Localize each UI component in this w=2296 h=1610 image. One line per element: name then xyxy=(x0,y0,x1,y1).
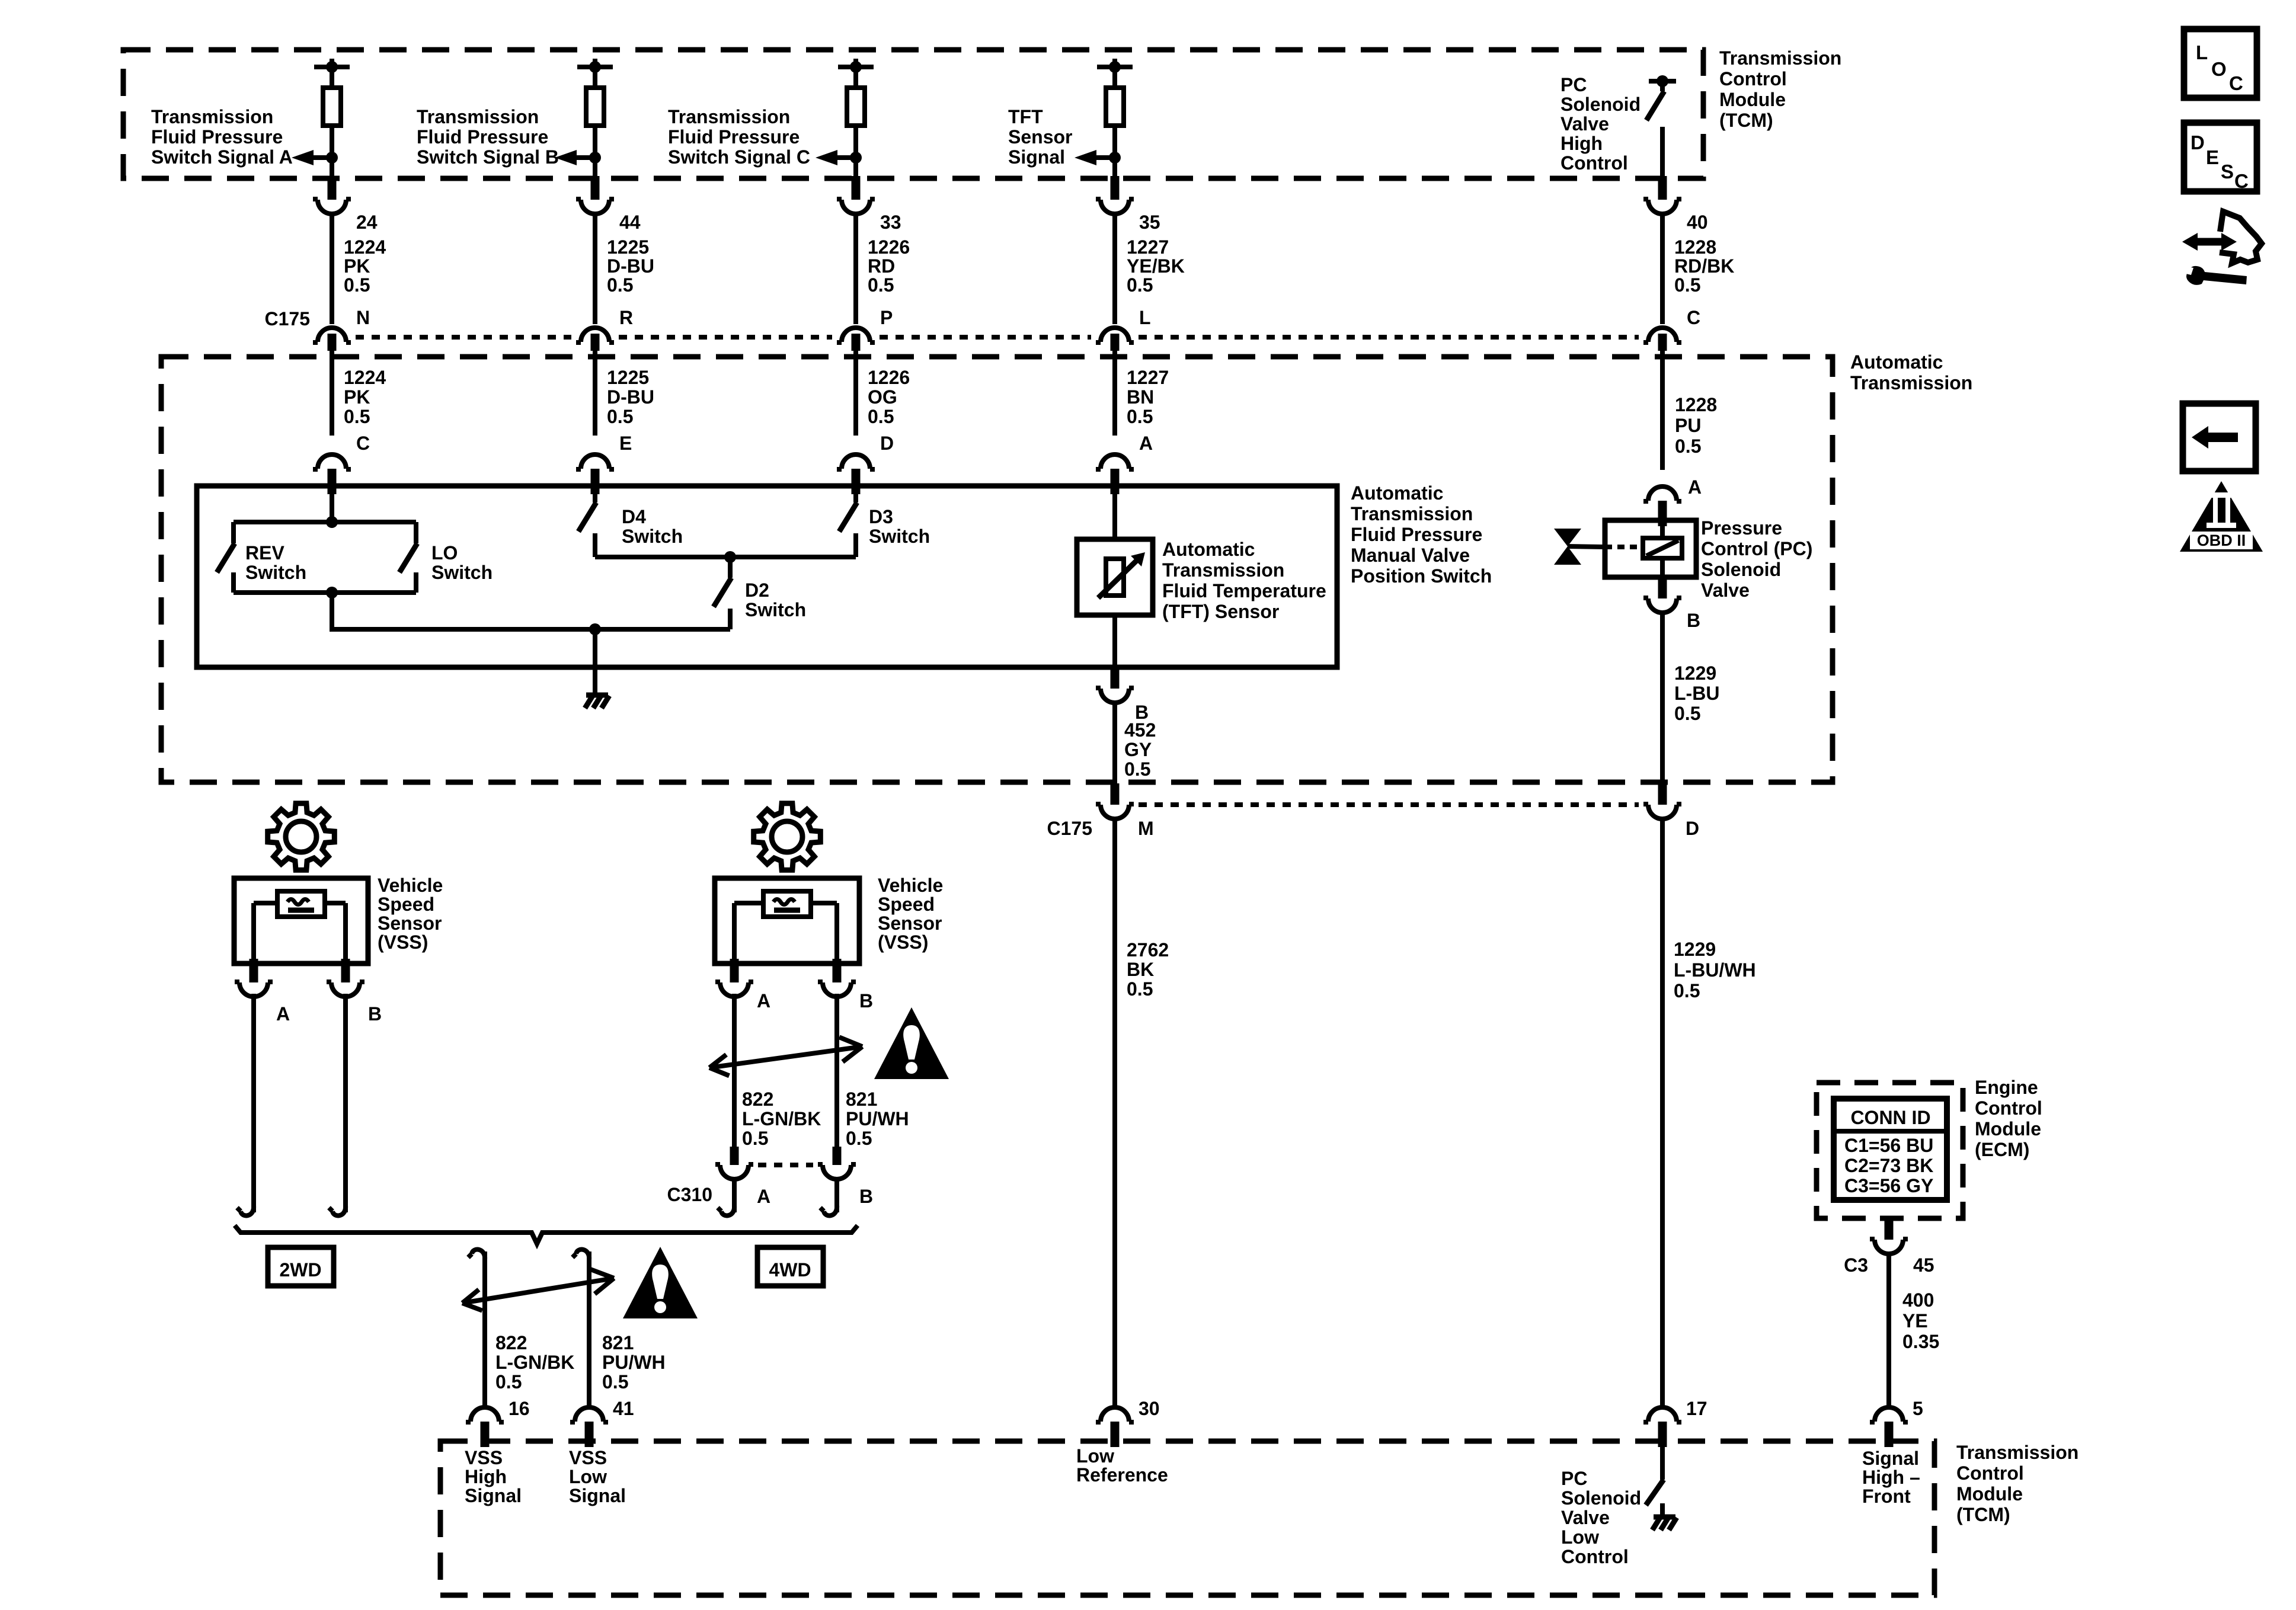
signal arrow: Transmission Fluid Pressure Switch Signal A xyxy=(292,150,338,165)
svg-text:1226: 1226 xyxy=(868,236,910,258)
wire 821 PU/WH 0.5 (brace to TCM pin 41) xyxy=(573,1250,589,1410)
wire 822 L-GN/BK 0.5 (VSS 4WD A to C310) xyxy=(732,994,737,1151)
svg-text:Transmission: Transmission xyxy=(417,106,539,127)
svg-text:D2: D2 xyxy=(745,580,769,601)
switch D4 xyxy=(578,488,596,557)
svg-text:PC: PC xyxy=(1561,1468,1587,1489)
svg-text:Engine: Engine xyxy=(1975,1077,2038,1098)
signal arrow: Transmission Fluid Pressure Switch Signal B xyxy=(555,150,601,165)
svg-text:YE: YE xyxy=(1902,1310,1928,1331)
svg-text:0.35: 0.35 xyxy=(1902,1331,1939,1352)
svg-text:1227: 1227 xyxy=(1127,367,1169,388)
svg-text:Switch Signal B: Switch Signal B xyxy=(417,146,559,168)
connector terminal B of Vehicle Speed Sensor (VSS) 4WD xyxy=(818,959,856,997)
svg-text:L-BU/WH: L-BU/WH xyxy=(1674,959,1756,981)
svg-text:1225: 1225 xyxy=(607,236,649,258)
svg-text:Solenoid: Solenoid xyxy=(1560,94,1641,115)
svg-text:24: 24 xyxy=(356,212,378,233)
connector terminal B of Vehicle Speed Sensor (VSS) 2WD xyxy=(327,959,364,997)
wire: common rail to D2 xyxy=(332,627,730,632)
svg-text:821: 821 xyxy=(846,1089,877,1110)
svg-text:A: A xyxy=(757,1186,770,1207)
wire: ground drop from common rail xyxy=(593,629,597,697)
svg-text:Control: Control xyxy=(1560,152,1628,174)
svg-text:17: 17 xyxy=(1686,1398,1707,1419)
component: Pressure Control (PC) Solenoid Valve xyxy=(1605,520,1696,577)
svg-text:LO: LO xyxy=(431,542,458,564)
svg-text:Manual Valve: Manual Valve xyxy=(1351,545,1470,566)
connector C310 in-line dotted line xyxy=(758,1163,813,1167)
wire: TFT sensor to box bottom xyxy=(1112,615,1117,667)
svg-text:PK: PK xyxy=(344,255,370,277)
svg-text:Module: Module xyxy=(1719,89,1786,110)
svg-text:0.5: 0.5 xyxy=(1127,406,1153,427)
svg-text:OBD II: OBD II xyxy=(2197,532,2246,549)
svg-text:C175: C175 xyxy=(1047,818,1093,839)
connector C175 terminal D xyxy=(1643,783,1681,819)
connector pin 33 at TCM xyxy=(837,176,875,214)
svg-text:L: L xyxy=(1139,307,1151,328)
wire: REV/LO branch rectangle top xyxy=(234,520,416,524)
wire: C310 A down to splice brace xyxy=(718,1179,734,1215)
svg-text:2WD: 2WD xyxy=(279,1259,321,1281)
svg-text:D4: D4 xyxy=(622,506,646,527)
svg-text:0.5: 0.5 xyxy=(846,1128,872,1149)
wire below resistor TFT Sensor Signal xyxy=(1112,126,1117,178)
svg-text:C1=56 BU: C1=56 BU xyxy=(1844,1135,1933,1156)
svg-text:L-BU: L-BU xyxy=(1674,683,1719,704)
svg-text:C: C xyxy=(2229,72,2243,94)
svg-text:Solenoid: Solenoid xyxy=(1561,1487,1641,1509)
svg-text:Front: Front xyxy=(1862,1486,1911,1507)
wire 1228 RD/BK 0.5 (TCM to C175) xyxy=(1660,213,1665,324)
svg-text:VSS: VSS xyxy=(569,1447,607,1468)
node: REV/LO branch bottom junction xyxy=(326,587,338,598)
svg-text:1224: 1224 xyxy=(344,367,386,388)
node: D2 tap junction xyxy=(724,551,736,563)
svg-text:RD: RD xyxy=(868,255,895,277)
wire 400 YE 0.35 (ECM to TCM pin 5) xyxy=(1886,1253,1891,1410)
svg-text:C: C xyxy=(356,433,370,454)
svg-text:Vehicle: Vehicle xyxy=(378,875,443,896)
wire: C310 B down to splice brace xyxy=(820,1179,837,1215)
svg-text:Sensor: Sensor xyxy=(1008,126,1072,148)
svg-text:Control: Control xyxy=(1975,1097,2042,1119)
connector terminal B below PC solenoid valve xyxy=(1643,575,1681,613)
svg-text:PK: PK xyxy=(344,386,370,408)
option box: 4WD xyxy=(757,1247,823,1286)
svg-text:L: L xyxy=(2196,41,2208,63)
svg-text:A: A xyxy=(757,990,770,1012)
svg-text:CONN ID: CONN ID xyxy=(1850,1107,1930,1128)
svg-text:0.5: 0.5 xyxy=(495,1371,522,1393)
svg-text:Solenoid: Solenoid xyxy=(1701,559,1781,580)
svg-text:1227: 1227 xyxy=(1127,236,1169,258)
wire 1229 L-BU 0.5 xyxy=(1660,612,1665,785)
svg-text:0.5: 0.5 xyxy=(1674,274,1700,296)
svg-text:E: E xyxy=(619,433,632,454)
svg-text:VSS: VSS xyxy=(465,1447,503,1468)
svg-text:Low: Low xyxy=(1076,1445,1114,1467)
svg-text:D: D xyxy=(880,433,894,454)
svg-text:C2=73 BK: C2=73 BK xyxy=(1844,1155,1933,1176)
component: Automatic Transmission Fluid Temperature (TFT) Sensor (thermistor) xyxy=(1077,539,1153,615)
svg-text:Automatic: Automatic xyxy=(1162,539,1255,560)
svg-text:821: 821 xyxy=(602,1332,634,1353)
svg-text:PU/WH: PU/WH xyxy=(846,1108,909,1129)
svg-text:Low: Low xyxy=(569,1466,607,1487)
wire: from terminal C down to REV/LO branch xyxy=(330,486,334,522)
svg-text:0.5: 0.5 xyxy=(1674,980,1700,1001)
svg-text:Sensor: Sensor xyxy=(378,913,442,934)
svg-text:1228: 1228 xyxy=(1674,236,1716,258)
svg-text:45: 45 xyxy=(1913,1254,1934,1276)
svg-text:Valve: Valve xyxy=(1561,1507,1610,1528)
svg-text:(TCM): (TCM) xyxy=(1719,110,1773,131)
svg-text:L-GN/BK: L-GN/BK xyxy=(742,1108,821,1129)
svg-text:1228: 1228 xyxy=(1675,394,1717,415)
svg-text:5: 5 xyxy=(1913,1398,1923,1419)
svg-text:Transmission: Transmission xyxy=(1850,372,1972,393)
svg-text:1226: 1226 xyxy=(868,367,910,388)
svg-text:Transmission: Transmission xyxy=(668,106,790,127)
icon: LOC box xyxy=(2184,29,2257,98)
component box: Vehicle Speed Sensor (VSS) 2WD xyxy=(234,878,368,964)
wire 1225 D-BU 0.5 (C175 into transmission) xyxy=(593,351,597,436)
module box: Engine Control Module (ECM) dashed xyxy=(1817,1083,1963,1218)
svg-text:0.5: 0.5 xyxy=(868,406,894,427)
sensor element inside Vehicle Speed Sensor (VSS) 2WD xyxy=(277,891,325,917)
svg-text:Reference: Reference xyxy=(1076,1464,1168,1486)
svg-text:B: B xyxy=(859,1186,873,1207)
svg-text:High –: High – xyxy=(1862,1467,1920,1488)
wire below resistor Transmission Fluid Pressure Switch Signal A xyxy=(330,126,334,178)
module box: Transmission Control Module (TCM) top xyxy=(123,50,1703,178)
wire 1229 L-BU/WH 0.5 (C175 to TCM) xyxy=(1660,818,1665,1410)
svg-text:Switch Signal C: Switch Signal C xyxy=(668,146,810,168)
switch LO xyxy=(399,522,417,593)
svg-text:C: C xyxy=(2234,170,2249,192)
svg-text:Valve: Valve xyxy=(1560,113,1609,135)
svg-text:822: 822 xyxy=(495,1332,527,1353)
svg-text:Vehicle: Vehicle xyxy=(878,875,943,896)
svg-text:30: 30 xyxy=(1139,1398,1160,1419)
svg-text:Transmission: Transmission xyxy=(1162,559,1284,581)
svg-text:D-BU: D-BU xyxy=(607,255,654,277)
wire: VSS 2WD terminal A to splice brace xyxy=(237,994,254,1215)
svg-text:Switch: Switch xyxy=(869,526,930,547)
svg-text:PU/WH: PU/WH xyxy=(602,1352,666,1373)
connector pin 40 at TCM xyxy=(1643,176,1681,214)
gear icon at Vehicle Speed Sensor (VSS) 4WD xyxy=(754,804,821,870)
signal arrow: TFT Sensor Signal xyxy=(1075,150,1121,165)
svg-text:Sensor: Sensor xyxy=(878,913,942,934)
svg-text:OG: OG xyxy=(868,386,897,408)
svg-text:Position Switch: Position Switch xyxy=(1351,565,1492,587)
svg-text:1229: 1229 xyxy=(1674,662,1716,684)
svg-text:(VSS): (VSS) xyxy=(378,932,428,953)
wire: REV/LO branch rectangle bottom xyxy=(234,590,416,595)
resistor: TFT Sensor Signal pull-up xyxy=(1106,88,1124,126)
svg-text:400: 400 xyxy=(1902,1289,1934,1311)
connector terminal A of Vehicle Speed Sensor (VSS) 2WD xyxy=(235,959,273,997)
svg-text:Transmission: Transmission xyxy=(1956,1442,2078,1463)
svg-text:Signal: Signal xyxy=(569,1485,626,1506)
svg-text:41: 41 xyxy=(613,1398,634,1419)
svg-text:TFT: TFT xyxy=(1008,106,1043,127)
wire 452 GY 0.5 xyxy=(1112,702,1117,785)
node: REV/LO branch top junction xyxy=(326,516,338,528)
connector C175 terminal L xyxy=(1096,328,1134,351)
svg-text:0.5: 0.5 xyxy=(1127,274,1153,296)
resistor: Transmission Fluid Pressure Switch Signal A pull-up xyxy=(323,88,341,126)
svg-text:0.5: 0.5 xyxy=(1675,436,1701,457)
svg-text:O: O xyxy=(2211,58,2227,80)
icon: back arrow box xyxy=(2183,404,2256,471)
svg-text:D-BU: D-BU xyxy=(607,386,654,408)
svg-text:33: 33 xyxy=(880,212,901,233)
wire 821 PU/WH 0.5 (VSS 4WD B to C310) xyxy=(834,994,839,1151)
svg-text:YE/BK: YE/BK xyxy=(1127,255,1185,277)
svg-text:Module: Module xyxy=(1975,1118,2041,1140)
svg-text:1224: 1224 xyxy=(344,236,386,258)
wire 1228 PU 0.5 (C175 to PC solenoid) xyxy=(1660,351,1665,470)
svg-text:D3: D3 xyxy=(869,506,893,527)
connector pin 5 at bottom TCM xyxy=(1870,1407,1908,1447)
crossed-wires arrow (4WD VSS harness) xyxy=(709,1037,862,1076)
svg-text:Transmission: Transmission xyxy=(1351,503,1473,524)
svg-text:High: High xyxy=(465,1466,507,1487)
svg-text:D: D xyxy=(2191,132,2205,153)
resistor: Transmission Fluid Pressure Switch Signal C pull-up xyxy=(847,88,865,126)
component box: Automatic Transmission Fluid Pressure Manual Valve Position Switch xyxy=(197,486,1337,667)
svg-text:0.5: 0.5 xyxy=(1674,703,1700,724)
svg-text:M: M xyxy=(1138,818,1154,839)
ground: PC solenoid valve low control xyxy=(1652,1517,1677,1530)
svg-text:2762: 2762 xyxy=(1127,939,1169,961)
svg-text:0.5: 0.5 xyxy=(868,274,894,296)
svg-text:Low: Low xyxy=(1561,1526,1599,1548)
svg-text:Fluid Pressure: Fluid Pressure xyxy=(151,126,283,148)
svg-text:C: C xyxy=(1687,307,1700,328)
svg-text:B: B xyxy=(859,990,873,1012)
wire below resistor Transmission Fluid Pressure Switch Signal C xyxy=(853,126,858,178)
svg-text:Transmission: Transmission xyxy=(1719,47,1841,69)
svg-text:Fluid Pressure: Fluid Pressure xyxy=(417,126,548,148)
resistor: Transmission Fluid Pressure Switch Signal B pull-up xyxy=(586,88,604,126)
svg-text:452: 452 xyxy=(1124,719,1156,741)
svg-text:Control: Control xyxy=(1956,1462,2024,1484)
svg-text:0.5: 0.5 xyxy=(602,1371,628,1393)
module box: Automatic Transmission (dashed) xyxy=(161,357,1833,782)
svg-text:A: A xyxy=(276,1003,290,1025)
connector C175 terminal N xyxy=(313,328,351,351)
svg-text:PC: PC xyxy=(1560,74,1587,95)
svg-text:L-GN/BK: L-GN/BK xyxy=(495,1352,574,1373)
svg-text:Fluid Pressure: Fluid Pressure xyxy=(1351,524,1482,545)
connector C175 in-line dotted line (upper) xyxy=(356,335,571,340)
option box: 2WD xyxy=(268,1247,334,1286)
svg-text:C3=56 GY: C3=56 GY xyxy=(1844,1175,1933,1196)
svg-text:GY: GY xyxy=(1124,739,1152,760)
connector C175 terminal P xyxy=(837,328,875,351)
node: ground tap junction xyxy=(589,623,601,635)
svg-text:1225: 1225 xyxy=(607,367,649,388)
wire 822 L-GN/BK 0.5 (brace to TCM pin 16) xyxy=(468,1250,485,1410)
svg-text:Pressure: Pressure xyxy=(1701,517,1782,539)
svg-text:Signal: Signal xyxy=(1862,1448,1919,1469)
warning triangle (VSS signal wires) xyxy=(623,1247,698,1318)
svg-text:44: 44 xyxy=(619,212,641,233)
svg-text:Valve: Valve xyxy=(1701,580,1750,601)
svg-text:Control: Control xyxy=(1719,68,1787,89)
svg-text:B: B xyxy=(368,1003,382,1025)
connector pin 16 at bottom TCM xyxy=(466,1407,504,1447)
svg-text:Fluid Temperature: Fluid Temperature xyxy=(1162,580,1326,601)
svg-text:(VSS): (VSS) xyxy=(878,932,928,953)
svg-text:Fluid Pressure: Fluid Pressure xyxy=(668,126,800,148)
connector C175 terminal R xyxy=(576,328,614,351)
connector terminal A into switch assembly xyxy=(1096,454,1134,494)
svg-text:N: N xyxy=(356,307,370,328)
svg-text:Module: Module xyxy=(1956,1483,2023,1505)
connector C175 terminal M xyxy=(1096,783,1134,819)
connector terminal B below TFT sensor xyxy=(1096,665,1134,703)
connector terminal A of Vehicle Speed Sensor (VSS) 4WD xyxy=(715,959,753,997)
crossed-wires arrow (VSS signal wires) xyxy=(462,1269,614,1310)
svg-text:0.5: 0.5 xyxy=(742,1128,768,1149)
component box: Vehicle Speed Sensor (VSS) 4WD xyxy=(715,878,859,964)
node: top of resistor Transmission Fluid Pressure Switch Signal A xyxy=(314,59,350,88)
ground: manual valve position switch common xyxy=(585,695,609,708)
svg-text:1229: 1229 xyxy=(1674,939,1716,960)
connector terminal A into PC solenoid valve xyxy=(1643,486,1681,526)
svg-text:D: D xyxy=(1686,818,1699,839)
svg-text:High: High xyxy=(1560,133,1603,154)
svg-text:0.5: 0.5 xyxy=(344,274,370,296)
svg-text:BN: BN xyxy=(1127,386,1154,408)
svg-text:Transmission: Transmission xyxy=(151,106,273,127)
svg-text:A: A xyxy=(1139,433,1153,454)
svg-text:0.5: 0.5 xyxy=(344,406,370,427)
svg-text:RD/BK: RD/BK xyxy=(1674,255,1734,277)
wire 1226 OG 0.5 (C175 into transmission) xyxy=(853,351,858,436)
svg-text:Speed: Speed xyxy=(878,894,935,915)
svg-text:Switch Signal A: Switch Signal A xyxy=(151,146,293,168)
svg-text:R: R xyxy=(619,307,633,328)
switch: PC Solenoid Valve Low Control driver in TCM xyxy=(1646,1447,1664,1518)
internal wiring of Vehicle Speed Sensor (VSS) 4WD xyxy=(734,903,837,964)
icon: data link connector glyph with wrench xyxy=(2182,212,2262,285)
svg-text:Switch: Switch xyxy=(622,526,683,547)
svg-text:0.5: 0.5 xyxy=(607,274,633,296)
svg-text:Automatic: Automatic xyxy=(1351,482,1443,504)
gear icon at Vehicle Speed Sensor (VSS) 2WD xyxy=(268,804,335,870)
node: top of resistor Transmission Fluid Pressure Switch Signal B xyxy=(577,59,613,88)
valve symbol (bowtie) at PC solenoid xyxy=(1554,529,1605,565)
connector pin 30 at bottom TCM xyxy=(1096,1407,1134,1447)
connector C310 terminal B xyxy=(818,1147,856,1179)
svg-text:4WD: 4WD xyxy=(769,1259,811,1281)
wire 1225 D-BU 0.5 (TCM to C175) xyxy=(593,213,597,324)
svg-text:0.5: 0.5 xyxy=(1127,978,1153,1000)
wire: D4 to D3 bottom rail xyxy=(595,555,856,559)
svg-text:Control: Control xyxy=(1561,1546,1629,1567)
wire below resistor Transmission Fluid Pressure Switch Signal B xyxy=(593,126,597,178)
module box: Transmission Control Module (TCM) bottom xyxy=(440,1441,1934,1595)
node: top of resistor TFT Sensor Signal xyxy=(1097,59,1133,88)
connector pin 24 at TCM xyxy=(313,176,351,214)
svg-text:35: 35 xyxy=(1139,212,1160,233)
connector C175 terminal C xyxy=(1643,328,1681,351)
svg-text:Signal: Signal xyxy=(1008,146,1065,168)
svg-text:Control (PC): Control (PC) xyxy=(1701,538,1812,559)
svg-text:Switch: Switch xyxy=(745,599,806,620)
svg-text:822: 822 xyxy=(742,1089,773,1110)
svg-text:REV: REV xyxy=(245,542,284,564)
switch: PC Solenoid Valve High Control driver in TCM xyxy=(1646,75,1676,178)
connector C3 pin 45 below ECM xyxy=(1870,1216,1908,1254)
connector C175 in-line dotted line (lower) xyxy=(1139,802,1639,807)
svg-text:B: B xyxy=(1687,610,1700,631)
svg-text:40: 40 xyxy=(1687,212,1708,233)
icon: OBD II triangle xyxy=(2180,481,2263,552)
svg-text:C310: C310 xyxy=(667,1184,713,1205)
connector pin 35 at TCM xyxy=(1096,176,1134,214)
warning triangle (4WD VSS) xyxy=(874,1007,949,1079)
internal wiring of Vehicle Speed Sensor (VSS) 2WD xyxy=(254,903,346,964)
connector pin 41 at bottom TCM xyxy=(570,1407,608,1447)
connector pin 44 at TCM xyxy=(576,176,614,214)
wire: branch bottom to common rail xyxy=(330,593,334,632)
svg-text:Speed: Speed xyxy=(378,894,434,915)
svg-text:S: S xyxy=(2221,161,2234,183)
connector terminal D into switch assembly xyxy=(837,454,875,494)
wire 2762 BK 0.5 (C175 to TCM low reference) xyxy=(1112,818,1117,1410)
sensor element inside Vehicle Speed Sensor (VSS) 4WD xyxy=(763,891,811,917)
svg-text:Switch: Switch xyxy=(245,562,306,583)
switch D2 xyxy=(714,557,731,629)
icon: DESC box xyxy=(2184,123,2257,192)
svg-text:16: 16 xyxy=(509,1398,530,1419)
wire 1224 PK 0.5 (TCM to C175) xyxy=(330,213,334,324)
svg-text:BK: BK xyxy=(1127,959,1154,980)
svg-text:E: E xyxy=(2206,146,2219,168)
svg-text:C175: C175 xyxy=(265,308,311,329)
wire 1227 YE/BK 0.5 (TCM to C175) xyxy=(1112,213,1117,324)
wire 1224 PK 0.5 (C175 into transmission) xyxy=(330,351,334,436)
connector terminal C into switch assembly xyxy=(313,454,351,494)
wire: terminal A into TFT sensor xyxy=(1112,486,1117,542)
wire: VSS 2WD terminal B to splice brace xyxy=(329,994,346,1215)
connector terminal E into switch assembly xyxy=(576,454,614,494)
signal arrow: Transmission Fluid Pressure Switch Signal C xyxy=(816,150,862,165)
svg-text:0.5: 0.5 xyxy=(1124,758,1150,780)
svg-text:(ECM): (ECM) xyxy=(1975,1139,2029,1160)
svg-text:Signal: Signal xyxy=(465,1485,522,1506)
svg-text:P: P xyxy=(880,307,893,328)
svg-text:Automatic: Automatic xyxy=(1850,351,1943,373)
svg-text:C3: C3 xyxy=(1844,1254,1868,1276)
switch REV xyxy=(217,522,235,593)
svg-text:(TFT) Sensor: (TFT) Sensor xyxy=(1162,601,1279,622)
splice brace joining 2WD and 4WD circuits xyxy=(235,1225,858,1244)
node: top of resistor Transmission Fluid Pressure Switch Signal C xyxy=(838,59,874,88)
wire 1227 BN 0.5 (C175 into transmission) xyxy=(1112,351,1117,436)
connector pin 17 at bottom TCM xyxy=(1643,1407,1681,1447)
svg-text:A: A xyxy=(1688,476,1702,498)
svg-text:PU: PU xyxy=(1675,415,1701,436)
